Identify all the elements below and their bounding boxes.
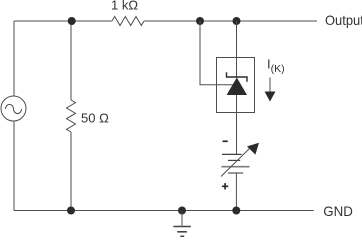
svg-text:1 kΩ: 1 kΩ: [111, 0, 138, 13]
node: bottom junction at source branch: [232, 207, 240, 215]
wire: bottom rail: [14, 210, 314, 212]
wire: anode lead down to variable source: [236, 95, 238, 154]
variable voltage source (battery plates): [221, 154, 249, 173]
wire: reference feedback (down then right to regulator): [200, 21, 233, 85]
diode triangle (anode): [227, 78, 247, 96]
ground symbol: [173, 211, 191, 237]
wire: variable source to bottom rail: [235, 173, 237, 211]
wire: top rail: [14, 20, 317, 22]
zener cathode bar: [227, 72, 248, 81]
node: top junction at reference branch: [196, 17, 204, 25]
plus polarity mark: [222, 183, 228, 189]
variable-source diagonal arrow: [221, 143, 259, 177]
svg-text:50 Ω: 50 Ω: [81, 111, 109, 126]
resistor 50 Ω (zigzag): [67, 100, 76, 132]
node: top junction at cathode branch: [233, 17, 241, 25]
node: bottom junction at ground: [178, 207, 186, 215]
wire: cathode lead: [236, 21, 238, 77]
shunt regulator U1 body box: [217, 58, 255, 113]
node: bottom junction at 50 Ω branch: [67, 207, 75, 215]
minus polarity mark: [223, 140, 228, 142]
resistor 1 kΩ (zigzag): [112, 17, 144, 26]
node: top junction at 50 Ω branch: [68, 17, 76, 25]
wire: left rail (source branch): [13, 21, 15, 211]
wire: 50 Ω branch vertical: [70, 21, 72, 211]
svg-text:Output: Output: [325, 12, 362, 28]
current arrow I(K): [265, 78, 276, 102]
svg-text:GND: GND: [323, 203, 353, 219]
svg-text:I(K): I(K): [267, 56, 285, 75]
ac source: [1, 96, 26, 121]
